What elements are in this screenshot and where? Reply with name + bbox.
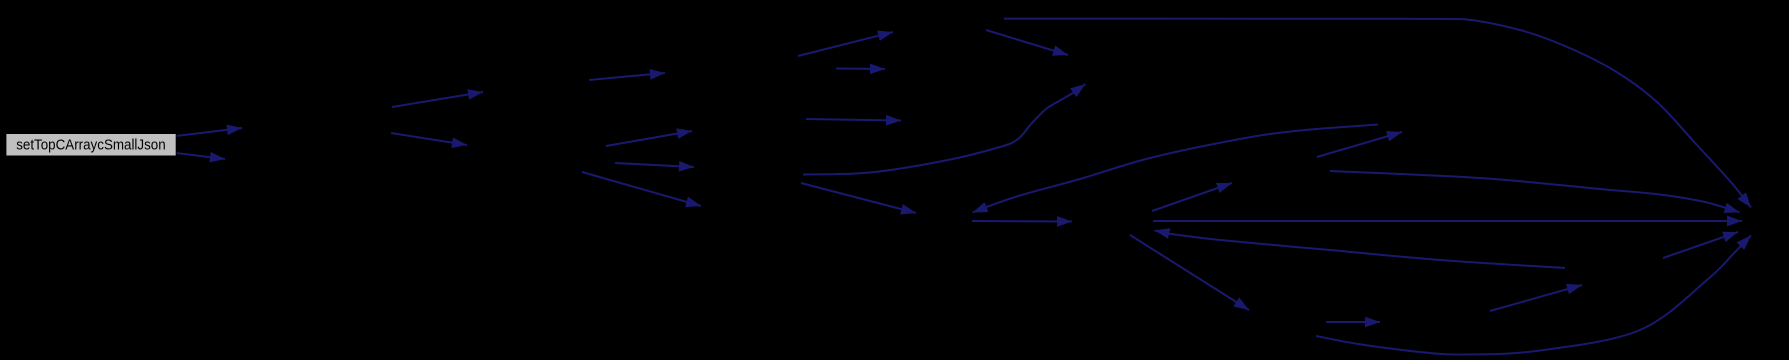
svg-text:setTopCArraycSmallJson: setTopCArraycSmallJson xyxy=(16,138,166,154)
